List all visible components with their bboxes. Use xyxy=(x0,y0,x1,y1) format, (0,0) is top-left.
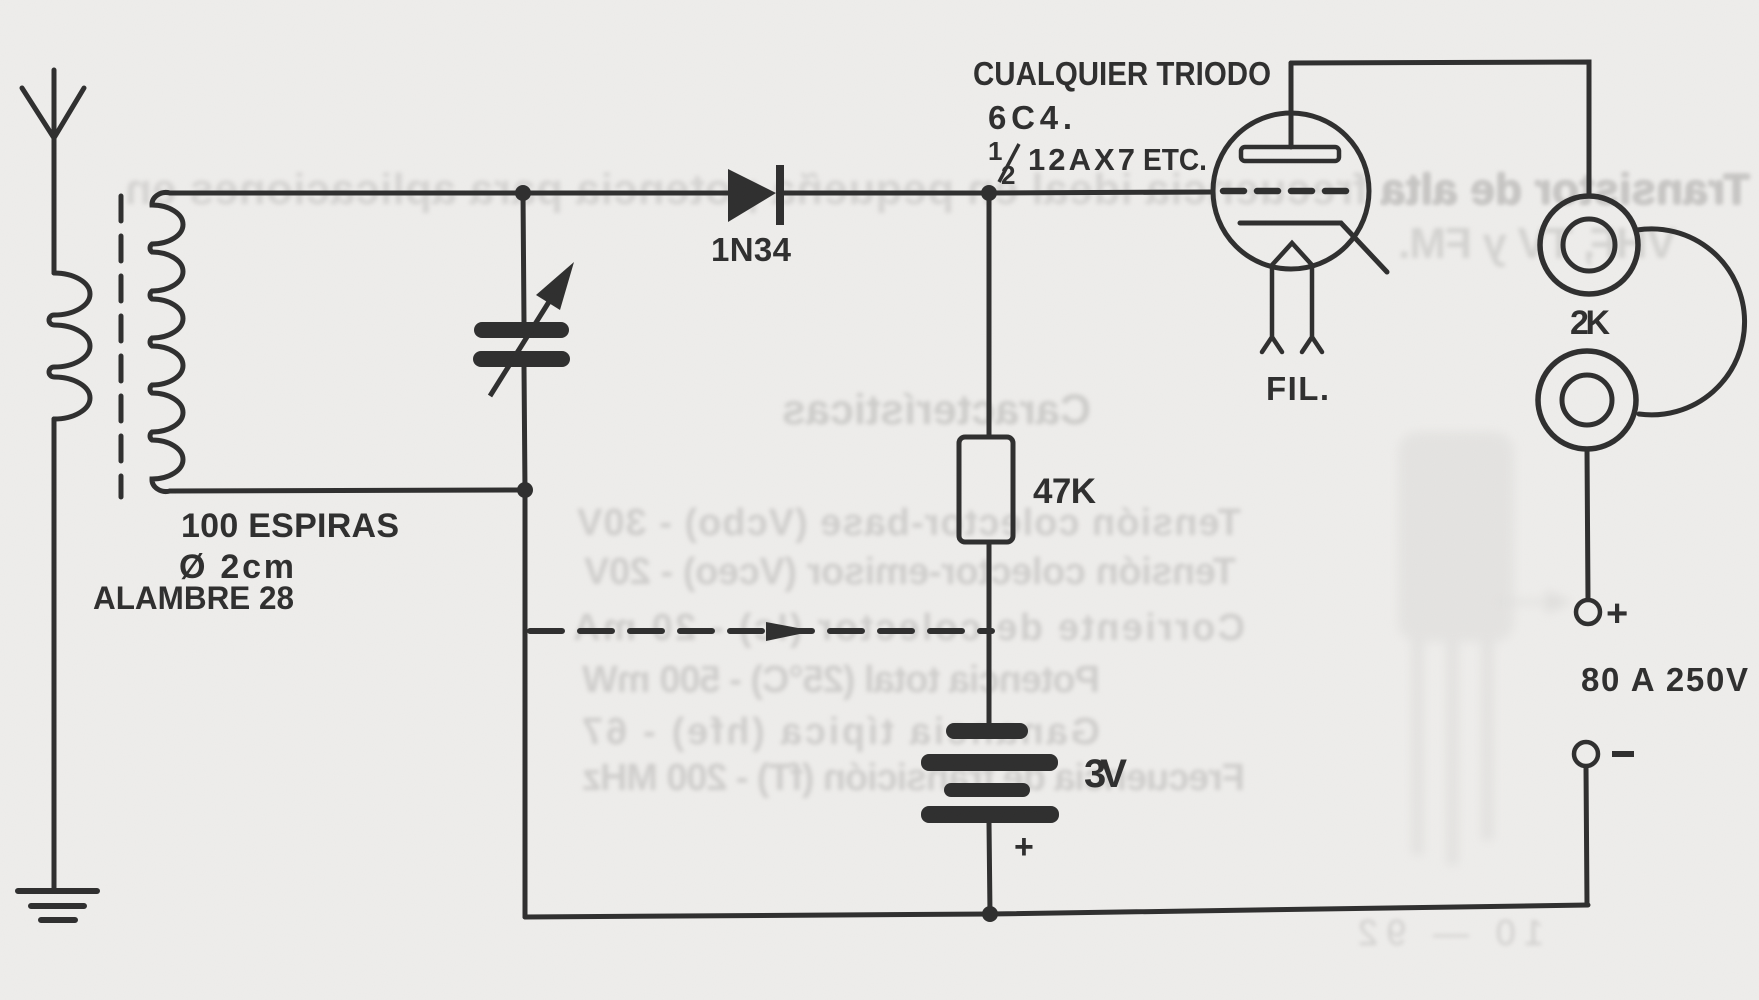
wire - terminal to rail xyxy=(1586,767,1587,905)
bleed-through transistor photo blob xyxy=(1398,432,1572,865)
label 1/2 fraction slash xyxy=(999,144,1019,182)
wire node to resistor xyxy=(987,193,992,437)
ground xyxy=(18,891,97,920)
headphone band xyxy=(1637,229,1745,415)
wire plate to phones xyxy=(1291,62,1589,196)
terminal - sign xyxy=(1612,751,1634,757)
tube V1 envelope xyxy=(1213,113,1369,269)
terminal + xyxy=(1576,600,1600,624)
wire battery to rail xyxy=(989,823,990,914)
variable capacitor C1 plate bottom xyxy=(473,351,570,367)
tube cathode xyxy=(1240,223,1387,272)
wire bottom rail xyxy=(525,905,1588,917)
variable capacitor C1 plate top xyxy=(474,322,569,338)
dashed arrow head xyxy=(766,622,814,641)
tube grid (dashed) xyxy=(1223,188,1346,195)
diode D1 cathode bar xyxy=(776,165,784,225)
node dot top C1 xyxy=(515,185,531,201)
coil L2 secondary 100 espiras xyxy=(150,192,183,491)
node dot grid xyxy=(981,185,997,201)
transformer core (dashed) xyxy=(119,196,124,497)
resistor R1 47K body xyxy=(959,437,1013,542)
bleed-through mirrored text line 2 xyxy=(1398,219,1676,268)
battery B1 bar 3 xyxy=(944,783,1030,797)
battery B1 bar 1 xyxy=(946,723,1028,739)
wire bottom from coil to node xyxy=(170,490,525,491)
battery B1 bar 2 xyxy=(921,754,1058,771)
wire diode branch xyxy=(523,191,989,196)
diode D1 1N34 triangle xyxy=(728,169,776,222)
wire C1 branch vertical xyxy=(523,193,525,917)
battery B1 bar 4 xyxy=(921,806,1059,823)
node dot bottom C1 xyxy=(517,482,533,498)
variable capacitor C1 arrow xyxy=(490,262,574,396)
terminal - xyxy=(1574,742,1598,766)
bleed-through mirrored spec line 1 xyxy=(573,502,1245,799)
bleed-through mirrored text line 1 xyxy=(125,165,1750,214)
antenna xyxy=(22,70,84,273)
wire phones to + terminal xyxy=(1587,449,1588,599)
headphone earpiece 2 xyxy=(1538,351,1636,449)
tube filament xyxy=(1262,243,1322,352)
headphone earpiece 1 xyxy=(1540,196,1638,294)
antenna down-lead wire xyxy=(52,419,57,890)
node dot rail xyxy=(982,906,998,922)
wire top from coil to C1 node xyxy=(170,191,523,196)
bleed-through mirrored heading Caracteristicas xyxy=(782,386,1091,434)
wire plate lead xyxy=(1289,63,1294,147)
tube plate xyxy=(1241,147,1339,161)
bleed-through mirrored page number 10-92 xyxy=(1358,912,1544,953)
dashed feedback arrow line xyxy=(530,628,992,634)
wire grid lead xyxy=(989,192,1213,193)
antenna coil L1 primary xyxy=(49,273,90,419)
wire resistor to battery xyxy=(987,542,992,723)
bleed-through mirrored text line 1 darker right part xyxy=(125,165,1750,214)
